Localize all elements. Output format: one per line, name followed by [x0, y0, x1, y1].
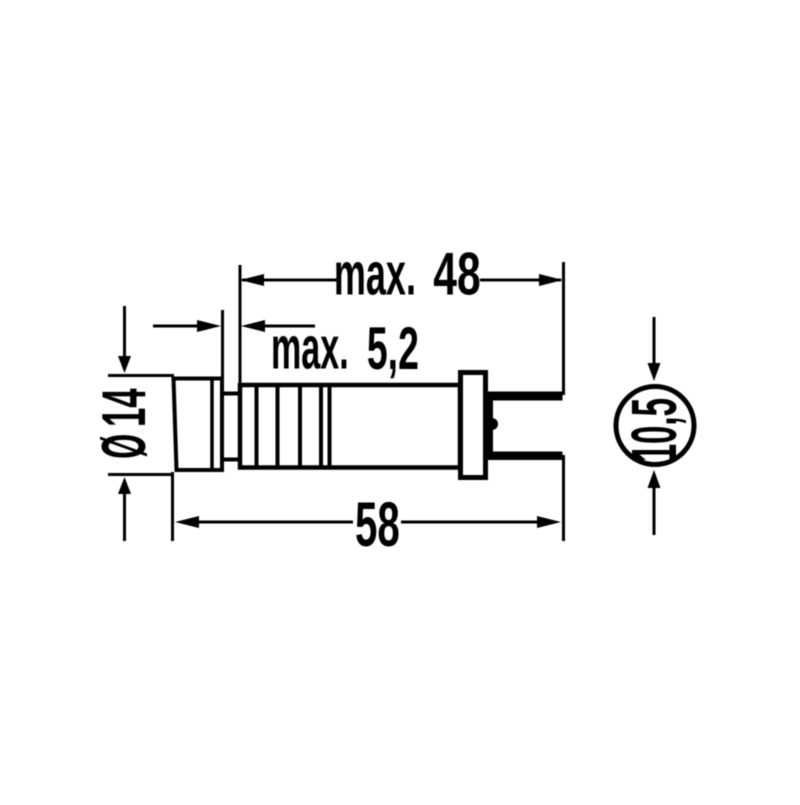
bottom terminal blade: [486, 452, 563, 461]
dimension max. 5,2 right arrow: [241, 320, 315, 332]
dimension line 58: [175, 516, 561, 528]
diameter 14 top arrow: [118, 306, 131, 373]
svg-text:5,2: 5,2: [367, 315, 419, 382]
dimension text 58: [355, 490, 400, 560]
circle text 10,5 (rotated): [618, 398, 690, 462]
lamp body (threaded barrel): [240, 385, 460, 468]
extension line right bottom (58 / terminal): [562, 455, 565, 541]
diameter 14 bottom extension line: [108, 473, 174, 476]
svg-text:58: 58: [355, 490, 400, 560]
extension line terminal end (right of max.48): [562, 262, 565, 395]
extension line thread start (left of max.48): [239, 265, 242, 383]
rear plate edge between terminals: [488, 400, 493, 460]
dimension text max. 5,2: [271, 315, 419, 382]
svg-text:10,5: 10,5: [618, 398, 690, 462]
dimension max. 5,2 left arrow: [153, 320, 221, 332]
bezel (lamp lens cap): [174, 378, 223, 470]
extension line 58 left (below bezel): [171, 472, 174, 541]
contact nub: [492, 418, 498, 430]
diameter 14 top extension line: [108, 374, 174, 377]
svg-text:14: 14: [89, 388, 158, 427]
circle dimension 10,5 ring: [616, 387, 694, 465]
neck between bezel and thread: [222, 394, 241, 460]
diameter 14 text (rotated): [89, 388, 158, 459]
thread ribs: [257, 386, 330, 466]
diameter 14 bottom arrow: [118, 477, 131, 541]
dimension text max. 48: [334, 241, 481, 308]
svg-text:Ø: Ø: [90, 434, 159, 459]
svg-text:max.: max.: [334, 241, 416, 308]
svg-text:max.: max.: [271, 315, 349, 381]
extension line bezel rear (for max 5,2): [221, 310, 224, 378]
top terminal blade: [486, 392, 563, 401]
dimension line max. 48: [240, 274, 563, 286]
flange (rear holder plate): [461, 373, 486, 478]
circle bottom arrow: [648, 470, 661, 535]
circle top arrow: [648, 317, 661, 381]
svg-text:48: 48: [433, 241, 480, 308]
